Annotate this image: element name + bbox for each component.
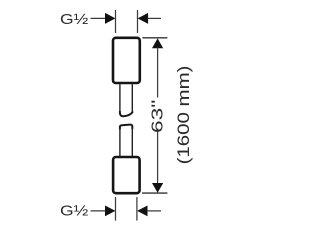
connector nut bottom — [113, 157, 140, 193]
extension line bottom-right — [136, 197, 138, 221]
tick line top — [142, 37, 167, 39]
hose stem top — [119, 84, 121, 112]
arrow bottom-right — [137, 206, 147, 217]
svg-text:(1600 mm): (1600 mm) — [174, 66, 193, 165]
leader wire bottom — [91, 210, 108, 212]
arrow top-left — [105, 13, 115, 24]
extension line bottom-left — [115, 197, 117, 221]
svg-text:G½: G½ — [60, 11, 89, 28]
extension line top-right — [137, 10, 139, 33]
tail wire top-right — [148, 17, 162, 19]
dimension line lower segment — [157, 129, 159, 184]
dimension arrow up — [152, 38, 163, 48]
connector nut top — [113, 38, 140, 83]
hose stem bottom break cap — [120, 125, 132, 129]
tail wire bottom-right — [147, 210, 161, 212]
arrow top-right — [138, 13, 148, 24]
arrow bottom-left — [105, 206, 115, 217]
extension line top-left — [115, 10, 117, 33]
dimension line upper segment — [157, 48, 159, 98]
hose stem bottom — [119, 128, 121, 157]
hose stem top break cap — [120, 112, 133, 117]
tick line bottom — [142, 192, 167, 194]
svg-text:G½: G½ — [60, 203, 89, 220]
leader wire top — [91, 17, 108, 19]
dimension arrow down — [152, 183, 163, 193]
svg-text:63": 63" — [149, 100, 167, 133]
